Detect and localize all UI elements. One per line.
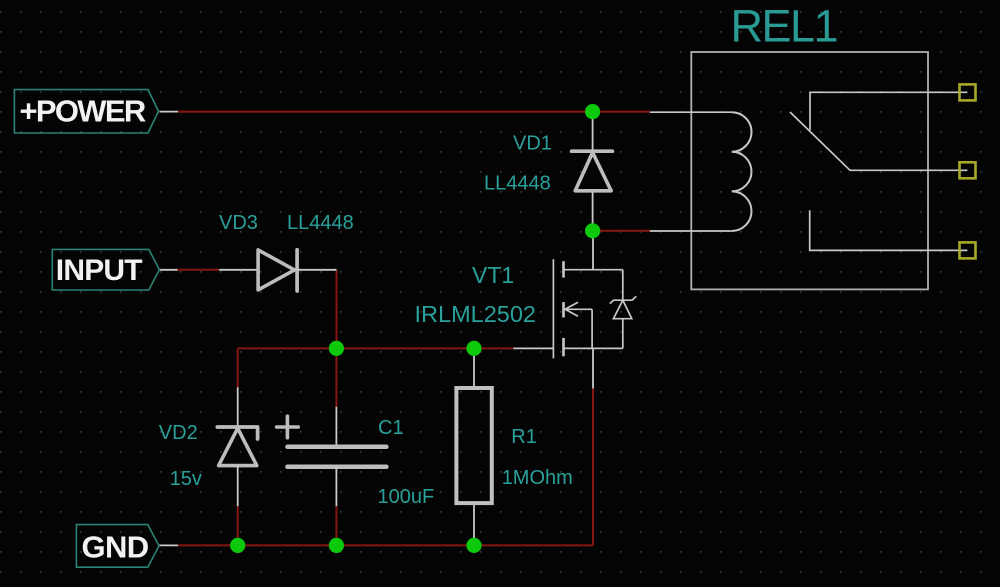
- net flag +POWER: [14, 90, 158, 133]
- svg-text:VT1: VT1: [472, 262, 514, 288]
- diode VD3: [219, 250, 336, 291]
- pin pad 1: [960, 84, 976, 100]
- svg-text:VD2: VD2: [159, 422, 198, 444]
- resistor R1: [456, 348, 491, 545]
- junction dot gate/C1: [329, 341, 344, 356]
- svg-text:IRLML2502: IRLML2502: [415, 301, 537, 327]
- junction dot GND/VD2: [230, 538, 245, 553]
- wire gate row: [238, 347, 514, 349]
- wire C1 top: [335, 348, 337, 406]
- wire VD1 bottom to relay coil bottom: [593, 230, 650, 232]
- svg-text:REL1: REL1: [731, 1, 838, 52]
- net flag GND: [76, 525, 159, 568]
- wire VD2 top: [237, 348, 239, 387]
- wire INPUT to VD3: [159, 269, 219, 271]
- relay coil arcs: [732, 112, 752, 231]
- wire source to GND vertical: [592, 388, 594, 545]
- capacitor C1: [277, 407, 387, 507]
- wire C1 bottom: [335, 506, 337, 545]
- net flag INPUT: [52, 249, 159, 290]
- junction dot GND/C1: [329, 538, 344, 553]
- svg-text:100uF: 100uF: [378, 486, 435, 508]
- relay bottom contact: [810, 210, 968, 250]
- relay coil pin top: [650, 111, 732, 113]
- svg-text:INPUT: INPUT: [56, 254, 142, 287]
- svg-text:1MOhm: 1MOhm: [502, 467, 573, 489]
- svg-text:VD1: VD1: [513, 133, 552, 155]
- junction dot power/VD1: [585, 104, 600, 119]
- transistor VT1 MOSFET: [513, 231, 622, 389]
- wire VD3 to gate node vertical: [336, 270, 338, 349]
- junction dot VD1/coil bottom: [585, 223, 600, 238]
- relay coil pin bottom: [650, 230, 732, 232]
- wire VD2 bottom: [237, 506, 239, 545]
- svg-text:15v: 15v: [170, 468, 202, 490]
- svg-text:C1: C1: [378, 417, 404, 439]
- diode VD1: [572, 112, 613, 231]
- svg-text:LL4448: LL4448: [287, 212, 354, 234]
- relay top contact: [810, 92, 967, 130]
- svg-text:VD3: VD3: [219, 212, 258, 234]
- svg-text:LL4448: LL4448: [484, 173, 551, 195]
- relay REL1 box: [691, 52, 928, 289]
- svg-text:+POWER: +POWER: [20, 93, 146, 128]
- zener diode VD2: [217, 387, 257, 506]
- pin pad 3: [960, 242, 976, 258]
- pin pad 2: [960, 162, 976, 178]
- wire GND row: [159, 544, 593, 546]
- junction dot GND/R1: [466, 538, 481, 553]
- svg-text:GND: GND: [82, 530, 149, 565]
- body diode of VT1: [610, 270, 636, 349]
- relay armature: [790, 112, 967, 170]
- wire +POWER to relay coil top: [160, 111, 650, 113]
- svg-text:R1: R1: [511, 426, 537, 448]
- junction dot gate/R1: [466, 341, 481, 356]
